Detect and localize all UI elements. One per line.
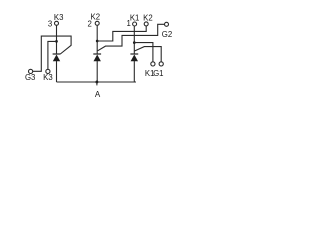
terminal K2 aux xyxy=(144,22,148,26)
svg-text:A: A xyxy=(95,90,101,99)
svg-text:G3: G3 xyxy=(25,73,35,82)
terminal K1 aux xyxy=(151,62,155,66)
wire cathode line thyristor 1 xyxy=(133,26,135,54)
node K2 junction dot xyxy=(96,40,99,43)
wire aux cathode K2 branch xyxy=(97,26,146,41)
svg-text:K2: K2 xyxy=(91,13,101,22)
svg-text:G2: G2 xyxy=(162,30,172,39)
terminal G2 xyxy=(165,22,169,26)
svg-text:K3: K3 xyxy=(54,13,64,22)
wire T1 anode down xyxy=(133,61,135,82)
terminal K3 aux xyxy=(46,69,50,73)
svg-text:2: 2 xyxy=(88,20,92,29)
svg-text:G1: G1 xyxy=(153,69,163,78)
svg-text:K3: K3 xyxy=(43,73,53,82)
terminal G1 xyxy=(159,62,163,66)
wire gate 2 routing xyxy=(98,24,165,51)
wire gate 3 routing xyxy=(33,36,71,71)
terminal G3 xyxy=(29,69,33,73)
wire T3 anode down xyxy=(56,61,58,82)
thyristor T2 cathode bar xyxy=(93,53,101,55)
terminal 2 (K2 top) xyxy=(95,21,99,25)
terminal 1 (K1 top) xyxy=(133,22,137,26)
wire T2 anode down xyxy=(96,61,98,82)
thyristor T1 cathode bar xyxy=(130,53,138,55)
thyristor T3 xyxy=(53,55,60,62)
thyristor T2 xyxy=(94,55,101,62)
wire A stub xyxy=(96,82,98,85)
wire gate 1 routing xyxy=(135,47,162,62)
svg-text:K1: K1 xyxy=(130,14,140,23)
wire aux cathode K1 branch xyxy=(134,43,153,62)
svg-text:K2: K2 xyxy=(143,14,153,23)
svg-text:3: 3 xyxy=(48,20,52,29)
wire anode bus xyxy=(57,81,137,83)
wire cathode line thyristor 2 xyxy=(96,26,98,54)
thyristor T1 xyxy=(131,55,138,62)
svg-text:1: 1 xyxy=(127,19,131,28)
node K3 junction dot xyxy=(55,40,58,43)
wire aux cathode K3 branch xyxy=(48,41,57,69)
wire cathode line thyristor 3 xyxy=(56,26,58,54)
node A junction dot xyxy=(95,81,98,84)
thyristor T3 cathode bar xyxy=(53,53,61,55)
terminal 3 (K3 top) xyxy=(55,21,59,25)
node K1 junction dot xyxy=(133,41,136,44)
